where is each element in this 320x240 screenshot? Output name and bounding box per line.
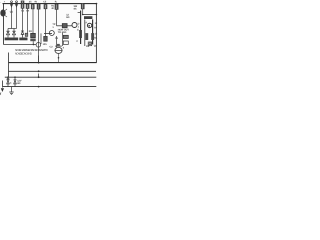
svg-text:NO HIGH VOLTAGE OR NO DC 120V: NO HIGH VOLTAGE OR NO DC 120V SUPPLY (15, 49, 48, 52)
svg-text:8Ω: 8Ω (17, 82, 20, 85)
svg-text:kV: kV (94, 27, 97, 30)
svg-text:C: C (76, 40, 78, 43)
svg-text:kΩ: kΩ (66, 16, 69, 19)
svg-text:R: R (55, 1, 57, 4)
svg-text:8A: 8A (74, 8, 77, 11)
svg-text:105: 105 (43, 43, 48, 46)
svg-text:NO VIDEO NO SND: NO VIDEO NO SND (15, 53, 32, 56)
svg-text:TR 2SD: TR 2SD (58, 31, 67, 34)
svg-text:8A: 8A (94, 37, 97, 40)
svg-text:FB: FB (86, 45, 89, 48)
svg-text:4V: 4V (34, 0, 37, 3)
